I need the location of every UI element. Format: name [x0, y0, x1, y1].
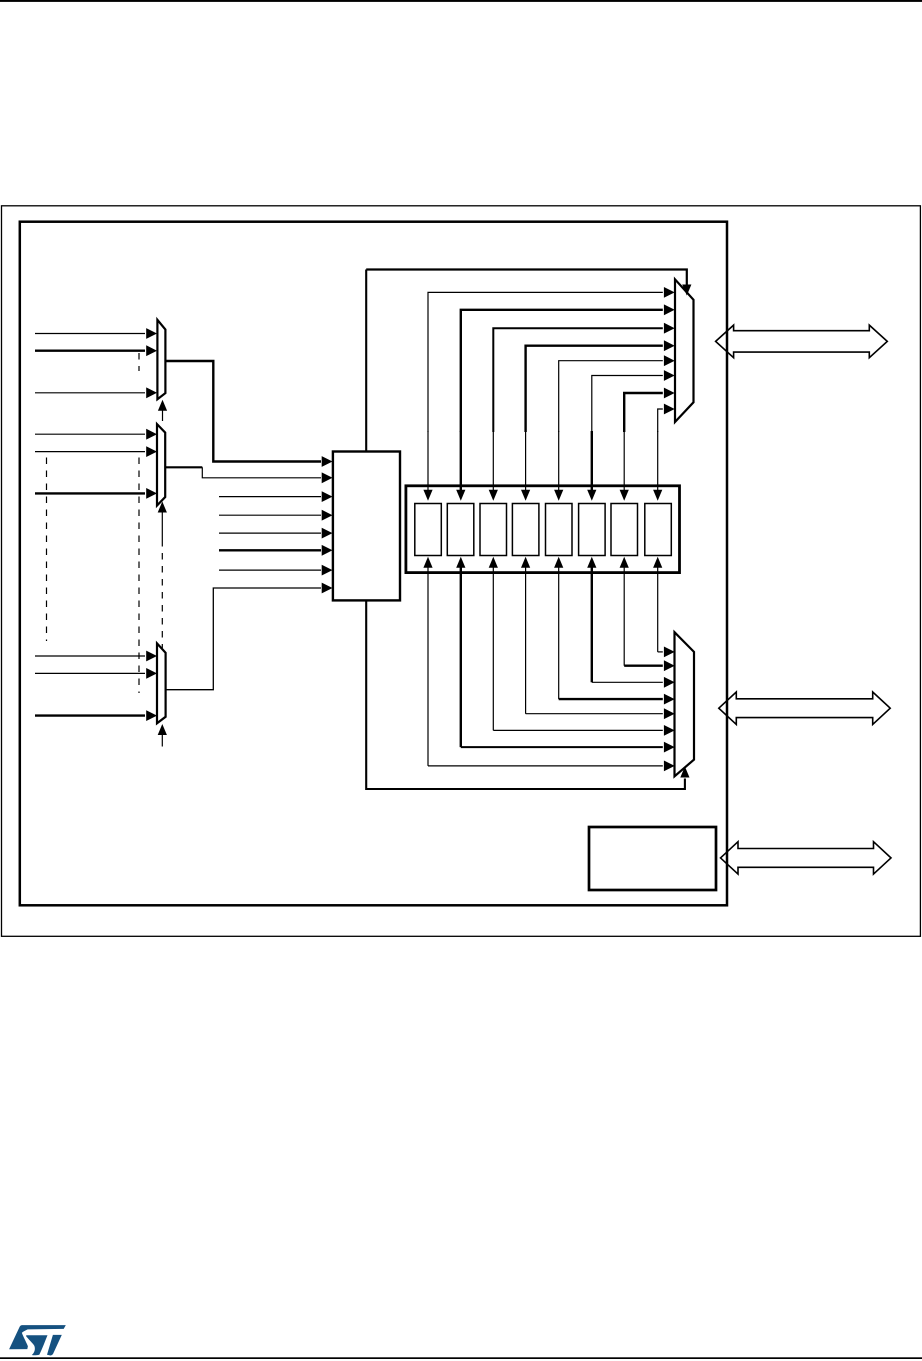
- wire: register R0 write path from top mux: [428, 292, 663, 432]
- register R1: [447, 504, 474, 556]
- wire: M1 input 3: [35, 392, 145, 394]
- wire: register R2 read path to bottom mux: [492, 567, 494, 731]
- register R2: [480, 504, 507, 556]
- top header rule: [0, 0, 922, 2]
- register R4: [546, 504, 573, 556]
- wire: M3 output to U1: [166, 588, 321, 690]
- input mux M3: [157, 643, 166, 723]
- register R7: [645, 504, 672, 556]
- bottom footer rule: [0, 1357, 922, 1359]
- register R3: [512, 504, 539, 556]
- dashed ellipsis line C (x=139 long): [138, 458, 140, 694]
- register file block: [406, 486, 680, 573]
- wire: M3 select arrow: [161, 735, 163, 747]
- bus arrow: data bus 2 (middle): [719, 692, 890, 724]
- wire: register R1 read path to bottom mux: [460, 567, 462, 747]
- figure outer frame: [2, 206, 921, 937]
- wire: M3 input 1: [35, 655, 145, 657]
- wire: M2 input 3: [35, 492, 145, 494]
- wire: feedback bus arrow into U3: [680, 767, 689, 778]
- wire: M2 select arrow (dashed from below): [161, 513, 163, 541]
- wire: register R6 read path to bottom mux: [623, 567, 625, 666]
- wire: M1 input 1: [35, 333, 145, 335]
- wire: U1 input stub 6: [219, 549, 321, 551]
- wire: register R0 read path to bottom mux: [427, 567, 429, 766]
- wire: M3 input 3: [35, 714, 145, 716]
- wire: register R7 read path to bottom mux: [657, 567, 659, 652]
- input mux M1: [157, 320, 165, 400]
- bus arrow: data bus 1 (top): [716, 325, 888, 358]
- ST logo: [9, 1325, 66, 1355]
- wire: feedback bus arrow into U2: [682, 285, 691, 296]
- read mux U3 (bottom right): [675, 632, 695, 776]
- wire: M1 output to U1: [165, 361, 321, 462]
- peripheral interface box: [589, 827, 716, 890]
- chip boundary frame: [20, 222, 727, 906]
- register R5: [579, 504, 606, 556]
- wire: U1 input stub 3: [219, 496, 321, 498]
- wire: M1 input 2: [35, 350, 145, 352]
- control block U1: [333, 452, 400, 601]
- wire: feedback bus C-path (top edge, left edge, bottom edge): [366, 270, 687, 285]
- wire: M3 input 2: [35, 672, 145, 674]
- wire: M2 input 1: [35, 433, 145, 435]
- wire: register R4 write path from top mux: [559, 361, 663, 432]
- wire: U1 input stub 4: [219, 514, 321, 516]
- wire: register R3 read path to bottom mux: [525, 567, 527, 714]
- wire: register R5 write path from top mux: [592, 376, 663, 433]
- bus arrow: data bus 3 (bottom): [721, 842, 892, 874]
- wire: M1 select arrow: [162, 411, 164, 422]
- wire: register R7 write path from top mux: [658, 409, 663, 432]
- wire: register R2 write path from top mux: [493, 328, 663, 432]
- wire: M2 output to U1: [165, 466, 202, 468]
- wire: register R4 read path to bottom mux: [558, 567, 560, 699]
- wire: U1 input stub 5: [219, 532, 321, 534]
- wire: register R6 write path from top mux: [624, 393, 663, 432]
- wire: U1 input stub 7: [219, 569, 321, 571]
- read mux U2 (top right): [675, 279, 694, 422]
- register R0: [415, 504, 442, 556]
- input mux M2: [157, 424, 165, 505]
- wire: M2 input 2: [35, 451, 145, 453]
- wire: register R1 write path from top mux: [461, 310, 663, 432]
- dashed ellipsis line A (x=46.5): [46, 458, 48, 642]
- wire: register R5 read path to bottom mux: [591, 567, 593, 683]
- wire: register R3 write path from top mux: [526, 346, 663, 432]
- register R6: [611, 504, 638, 556]
- dashed ellipsis line B (x=139 short): [138, 353, 140, 371]
